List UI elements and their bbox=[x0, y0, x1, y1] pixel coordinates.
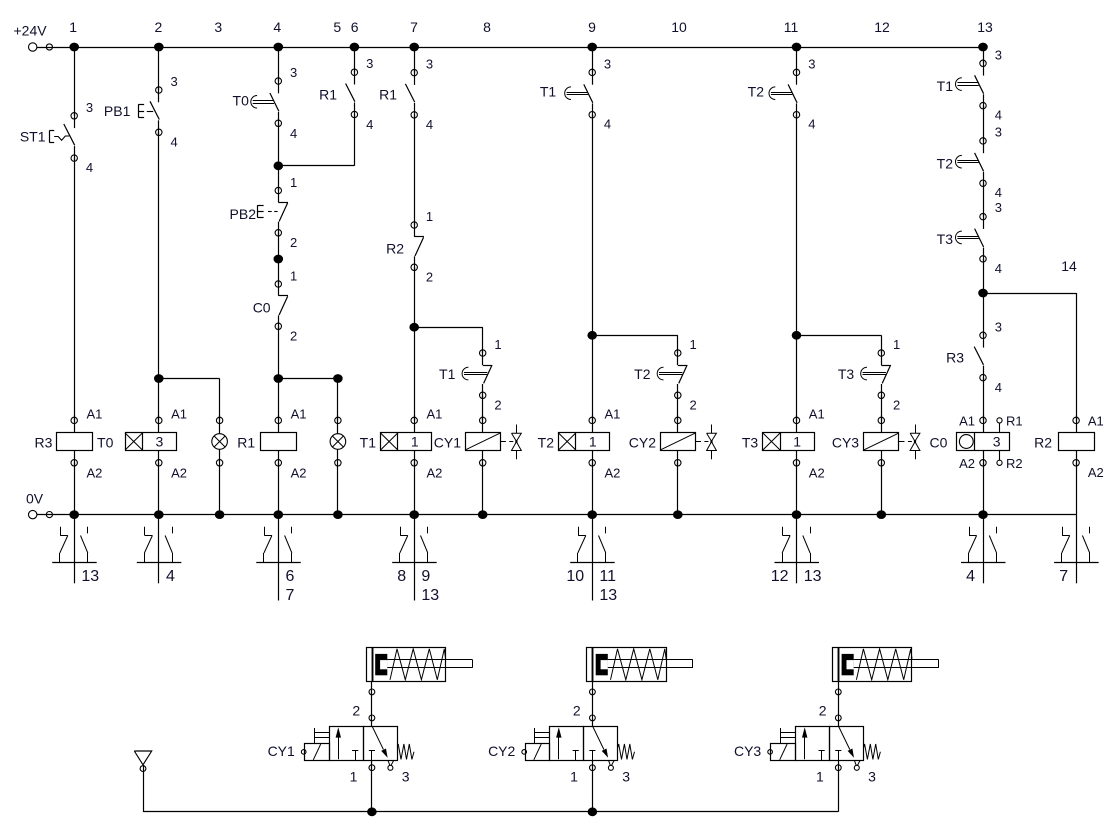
junction top rail rung 13 bbox=[978, 43, 988, 52]
wire PB2 to node bbox=[278, 233, 280, 259]
svg-text:3: 3 bbox=[171, 74, 178, 89]
svg-text:3: 3 bbox=[995, 319, 1002, 334]
coil R1 wires bbox=[278, 415, 280, 433]
svg-text:CY2: CY2 bbox=[629, 435, 656, 451]
wire R2 to node bbox=[414, 267, 416, 327]
junction bottom rail col 12 bbox=[877, 510, 887, 519]
svg-text:3: 3 bbox=[995, 200, 1002, 215]
counter contact C0 NC bbox=[275, 281, 281, 287]
junction top rail rung 2 bbox=[154, 43, 164, 52]
valve CY1 blocked port right bbox=[369, 750, 375, 752]
relay coil R1 bbox=[261, 433, 297, 451]
junction bottom rail col 3 bbox=[215, 510, 225, 519]
svg-text:10: 10 bbox=[566, 568, 584, 585]
svg-text:R2: R2 bbox=[386, 241, 404, 257]
terminal CY3 bbox=[768, 750, 773, 755]
junction manifold CY2 bbox=[588, 807, 598, 816]
svg-text:2: 2 bbox=[690, 397, 697, 412]
valve CY3 exhaust path bbox=[839, 726, 850, 749]
cylinder CY3 rod bbox=[854, 659, 939, 661]
svg-text:8: 8 bbox=[397, 568, 406, 585]
valve CY2 blocked port left bbox=[573, 750, 579, 752]
wire rung6 down bbox=[354, 115, 356, 166]
valve link CY1 bbox=[500, 441, 506, 443]
svg-text:2: 2 bbox=[494, 397, 501, 412]
valve CY3 blocked port right bbox=[835, 750, 841, 752]
port 1 CY3 bbox=[838, 760, 840, 812]
wire T1 to CY1 coil bbox=[482, 395, 484, 420]
coil T2 wires bbox=[592, 415, 594, 433]
cylinder CY1 piston bbox=[375, 654, 387, 675]
timer contact T0 NO delayed bbox=[275, 78, 281, 84]
svg-text:A1: A1 bbox=[291, 406, 307, 421]
svg-text:6: 6 bbox=[286, 568, 295, 585]
svg-text:1: 1 bbox=[290, 269, 297, 284]
valve CY1 exhaust path bbox=[372, 726, 383, 749]
wire rung11 to coil bbox=[796, 335, 798, 420]
svg-text:1: 1 bbox=[793, 434, 801, 450]
cylinder CY1 spring bbox=[390, 649, 446, 680]
wire T3 to CY3 coil bbox=[881, 395, 883, 420]
coil R3 wires bbox=[74, 415, 76, 433]
svg-text:CY1: CY1 bbox=[434, 435, 461, 451]
svg-text:A2: A2 bbox=[291, 465, 307, 480]
port 3 CY1 bbox=[388, 760, 390, 765]
svg-text:13: 13 bbox=[599, 587, 617, 604]
cylinder CY3 body bbox=[833, 648, 912, 682]
coil T0 wires bbox=[158, 415, 160, 433]
svg-text:1: 1 bbox=[893, 337, 900, 352]
valve CY3 body bbox=[796, 727, 830, 761]
cylinder CY2 spring bbox=[611, 649, 667, 680]
pushbutton PB1 NO contact bbox=[156, 87, 162, 93]
svg-text:3: 3 bbox=[995, 47, 1002, 62]
svg-text:3: 3 bbox=[622, 769, 630, 785]
coil CY3 wires bbox=[881, 415, 883, 433]
svg-text:4: 4 bbox=[995, 185, 1002, 200]
svg-text:13: 13 bbox=[81, 568, 99, 585]
timer contact T2 NC delayed bbox=[675, 350, 681, 356]
actuator ST1 bbox=[49, 131, 51, 143]
svg-text:A2: A2 bbox=[959, 456, 975, 471]
svg-text:9: 9 bbox=[421, 568, 430, 585]
svg-text:2: 2 bbox=[155, 19, 163, 35]
relay contact R1 NO rung7 bbox=[411, 69, 417, 75]
svg-text:1: 1 bbox=[589, 434, 597, 450]
svg-text:4: 4 bbox=[366, 117, 373, 132]
junction bottom rail col 10 bbox=[673, 510, 683, 519]
contact cross-ref R1 bbox=[278, 515, 280, 601]
junction rung11 CY3 branch bbox=[792, 331, 802, 340]
relay coil R3 bbox=[57, 433, 93, 451]
junction bottom rail col 13 bbox=[978, 510, 988, 519]
svg-text:14: 14 bbox=[1061, 258, 1077, 274]
lamp H2 wires bbox=[337, 415, 339, 434]
svg-text:7: 7 bbox=[286, 587, 295, 604]
solenoid coil CY2 bbox=[661, 433, 696, 451]
svg-text:A2: A2 bbox=[1088, 465, 1104, 480]
timer contact T1 NC delayed bbox=[480, 350, 486, 356]
wire manifold bbox=[143, 811, 838, 813]
svg-text:1: 1 bbox=[816, 769, 824, 785]
svg-text:T0: T0 bbox=[233, 92, 250, 108]
junction bottom rail col 11 bbox=[792, 510, 802, 519]
wire rung11 mid bbox=[796, 115, 798, 336]
contact cross-ref C0 bbox=[983, 515, 985, 584]
wire rung13 top bbox=[983, 47, 985, 63]
coil C0 wires bbox=[983, 415, 985, 433]
wire branch to lamp V1 bbox=[219, 379, 221, 421]
svg-text:3: 3 bbox=[604, 56, 611, 71]
valve link CY3 bbox=[899, 441, 905, 443]
indicator lamp H1 bbox=[212, 434, 228, 450]
svg-text:R1: R1 bbox=[237, 435, 255, 451]
solenoid pins CY1 bbox=[314, 728, 316, 743]
counter coil C0 preset 3 bbox=[957, 433, 1010, 451]
actuator PB1 bbox=[138, 105, 140, 118]
svg-text:4: 4 bbox=[808, 117, 815, 132]
svg-text:2: 2 bbox=[352, 702, 360, 718]
timer contact T1 NO delayed rung9 bbox=[589, 69, 595, 75]
svg-text:4: 4 bbox=[966, 568, 975, 585]
wire rung6 top bbox=[354, 47, 356, 72]
relay contact R3 NO bbox=[980, 332, 986, 338]
valve CY3 return spring bbox=[864, 744, 881, 759]
svg-text:13: 13 bbox=[804, 568, 822, 585]
solenoid actuator CY3 bbox=[771, 744, 796, 761]
wire rung2 top bbox=[158, 47, 160, 90]
valve CY2 blocked port right bbox=[589, 750, 595, 752]
contact cross-ref T0 bbox=[158, 515, 160, 584]
svg-text:2: 2 bbox=[290, 328, 297, 343]
svg-text:R1: R1 bbox=[379, 87, 397, 103]
terminal CY1 bbox=[301, 750, 306, 755]
junction rung2 lamp branch bbox=[154, 374, 164, 383]
indicator lamp H2 bbox=[330, 434, 346, 450]
0V rail terminal circles bbox=[29, 510, 37, 518]
svg-text:3: 3 bbox=[426, 57, 433, 72]
svg-text:CY3: CY3 bbox=[832, 435, 859, 451]
wire R3 to C0 coil bbox=[983, 378, 985, 421]
cylinder CY2 rod bbox=[608, 659, 693, 661]
svg-text:R2: R2 bbox=[1006, 456, 1023, 471]
svg-text:2: 2 bbox=[426, 269, 433, 284]
wire CY1 branch H bbox=[414, 327, 483, 329]
cylinder CY3 piston bbox=[842, 654, 854, 675]
port 1 CY1 bbox=[371, 760, 373, 812]
wire CY2 branch V bbox=[677, 335, 679, 353]
svg-text:R3: R3 bbox=[34, 435, 52, 451]
valve CY2 flow arrow bbox=[558, 737, 560, 759]
svg-text:1: 1 bbox=[426, 209, 433, 224]
+24V rail terminal circles bbox=[29, 43, 37, 51]
svg-text:12: 12 bbox=[874, 19, 890, 35]
port 1 CY2 bbox=[592, 760, 594, 812]
svg-text:2: 2 bbox=[573, 702, 581, 718]
svg-text:9: 9 bbox=[588, 19, 596, 35]
svg-text:0V: 0V bbox=[26, 491, 44, 507]
svg-text:T2: T2 bbox=[634, 366, 651, 382]
svg-text:A2: A2 bbox=[171, 465, 187, 480]
valve CY2 return spring bbox=[618, 744, 635, 759]
svg-text:12: 12 bbox=[771, 568, 789, 585]
svg-text:A2: A2 bbox=[87, 465, 103, 480]
svg-text:A1: A1 bbox=[809, 406, 825, 421]
svg-text:ST1: ST1 bbox=[20, 129, 46, 145]
coil T3 wires bbox=[796, 415, 798, 433]
svg-text:R2: R2 bbox=[1034, 435, 1052, 451]
junction bottom rail col 4 bbox=[274, 510, 284, 519]
svg-text:3: 3 bbox=[156, 434, 164, 450]
cylinder CY1 rod bbox=[387, 659, 472, 661]
junction top rail rung 1 bbox=[69, 43, 79, 52]
timer contact T3 NC delayed bbox=[878, 350, 884, 356]
svg-text:7: 7 bbox=[1059, 568, 1068, 585]
pin R1 C0 reset bbox=[999, 423, 1001, 433]
svg-text:11: 11 bbox=[599, 568, 616, 585]
junction lamp2 corner bbox=[333, 374, 343, 383]
junction bottom rail col 7 bbox=[409, 510, 419, 519]
svg-text:5: 5 bbox=[333, 19, 341, 35]
svg-text:A2: A2 bbox=[809, 465, 825, 480]
wire rung4 top bbox=[278, 47, 280, 81]
wire CY1 branch V bbox=[482, 327, 484, 353]
wire rung1 mid bbox=[74, 158, 76, 420]
wire rung9 top bbox=[592, 47, 594, 72]
timer coil T0 preset 3 bbox=[126, 433, 177, 451]
svg-text:1: 1 bbox=[69, 19, 77, 35]
wire rung13 node down bbox=[983, 293, 985, 335]
svg-text:3: 3 bbox=[290, 65, 297, 80]
svg-text:1: 1 bbox=[494, 337, 501, 352]
wire rung1 top bbox=[74, 47, 76, 116]
wire CY3 branch V bbox=[881, 335, 883, 353]
switch ST1 detent NO contact bbox=[71, 113, 77, 119]
lamp H2 terminals bbox=[335, 417, 341, 423]
svg-text:A1: A1 bbox=[427, 406, 443, 421]
wire CY3 port2 to cylinder bbox=[838, 681, 840, 726]
compressed air supply bbox=[134, 751, 151, 765]
svg-text:4: 4 bbox=[86, 160, 93, 175]
solenoid pins CY3 bbox=[780, 728, 782, 743]
pushbutton PB2 NC contact bbox=[275, 187, 281, 193]
svg-text:8: 8 bbox=[483, 19, 491, 35]
svg-text:1: 1 bbox=[570, 769, 578, 785]
junction top rail rung 6 bbox=[350, 43, 360, 52]
solenoid actuator CY2 bbox=[526, 744, 550, 761]
svg-text:+24V: +24V bbox=[14, 22, 48, 38]
svg-text:13: 13 bbox=[977, 19, 993, 35]
svg-text:4: 4 bbox=[273, 19, 281, 35]
junction top rail rung 11 bbox=[792, 43, 802, 52]
coil R2 wires bbox=[1076, 415, 1078, 433]
svg-text:1: 1 bbox=[350, 769, 358, 785]
svg-text:13: 13 bbox=[421, 587, 439, 604]
cylinder CY3 spring bbox=[856, 649, 912, 680]
svg-text:4: 4 bbox=[995, 380, 1002, 395]
timer contact T2 NO delayed rung11 bbox=[793, 69, 799, 75]
wire branch to lamp H1 bbox=[159, 378, 220, 380]
svg-text:6: 6 bbox=[351, 19, 359, 35]
cylinder CY2 body bbox=[587, 648, 667, 682]
junction top rail rung 9 bbox=[587, 43, 597, 52]
svg-text:1: 1 bbox=[411, 434, 419, 450]
svg-text:T3: T3 bbox=[838, 366, 855, 382]
wire rung7 top bbox=[414, 47, 416, 73]
valve CY3 blocked port left bbox=[819, 750, 825, 752]
solenoid pins CY2 bbox=[534, 728, 536, 743]
svg-text:T1: T1 bbox=[360, 435, 377, 451]
svg-text:4: 4 bbox=[604, 117, 611, 132]
svg-text:T1: T1 bbox=[937, 78, 954, 94]
contact cross-ref R2 bbox=[1076, 515, 1078, 584]
svg-text:T2: T2 bbox=[937, 155, 954, 171]
wire branch lamp2 V bbox=[337, 379, 339, 421]
svg-text:T1: T1 bbox=[439, 366, 456, 382]
svg-text:R1: R1 bbox=[1006, 414, 1023, 429]
svg-text:R3: R3 bbox=[946, 350, 964, 366]
relay contact R2 NC bbox=[411, 222, 417, 228]
svg-text:7: 7 bbox=[410, 19, 418, 35]
cylinder CY2 piston bbox=[596, 654, 608, 675]
svg-text:A1: A1 bbox=[1088, 414, 1104, 429]
wire rung9 mid bbox=[592, 115, 594, 336]
svg-text:T2: T2 bbox=[538, 435, 555, 451]
wire rung13 T1-T2 bbox=[983, 106, 985, 141]
svg-text:CY3: CY3 bbox=[734, 743, 761, 759]
junction rung4/R1 parallel bbox=[274, 161, 284, 170]
timer contact T1 NO rung13 bbox=[980, 60, 986, 66]
valve CY2 exhaust path bbox=[593, 726, 604, 749]
wire +24V top rail bbox=[37, 47, 983, 49]
junction rung9 CY2 branch bbox=[587, 331, 597, 340]
svg-text:3: 3 bbox=[402, 769, 410, 785]
svg-text:3: 3 bbox=[808, 56, 815, 71]
valve CY1 flow arrow bbox=[338, 737, 340, 759]
valve CY2 body bbox=[550, 727, 584, 761]
wire CY2 branch H bbox=[592, 335, 678, 337]
wire rung11 top bbox=[796, 47, 798, 72]
junction bottom rail col 8 bbox=[478, 510, 488, 519]
svg-text:1: 1 bbox=[290, 175, 297, 190]
svg-text:2: 2 bbox=[893, 397, 900, 412]
svg-text:4: 4 bbox=[171, 134, 178, 149]
port 3 CY2 bbox=[608, 760, 610, 765]
svg-text:T1: T1 bbox=[540, 84, 557, 100]
timer contact T2 NO rung13 bbox=[980, 138, 986, 144]
solenoid actuator CY1 bbox=[305, 744, 330, 761]
svg-text:PB1: PB1 bbox=[104, 103, 131, 119]
lamp H1 wires bbox=[219, 415, 221, 434]
svg-text:3: 3 bbox=[366, 56, 373, 71]
svg-text:10: 10 bbox=[671, 19, 687, 35]
wire CY3 branch H bbox=[797, 335, 882, 337]
svg-text:C0: C0 bbox=[253, 300, 271, 316]
valve CY1 body bbox=[330, 727, 364, 761]
svg-text:4: 4 bbox=[995, 108, 1002, 123]
wire T2 to CY2 coil bbox=[677, 395, 679, 420]
svg-text:2: 2 bbox=[290, 235, 297, 250]
svg-text:A1: A1 bbox=[87, 406, 103, 421]
svg-text:4: 4 bbox=[426, 117, 433, 132]
junction rung7 CY1 branch bbox=[409, 323, 419, 332]
svg-text:A1: A1 bbox=[959, 414, 975, 429]
svg-text:3: 3 bbox=[868, 769, 876, 785]
wire node to C0 bbox=[278, 259, 280, 284]
wire branch rung14 H bbox=[983, 293, 1076, 295]
terminal CY2 bbox=[522, 750, 527, 755]
valve CY1 blocked port left bbox=[352, 750, 358, 752]
valve CY3 flow arrow bbox=[804, 737, 806, 759]
wire rung9 to coil bbox=[592, 335, 594, 420]
wire C0 to lamp branch bbox=[278, 326, 280, 378]
wire parallel R1 branch H bbox=[278, 165, 354, 167]
svg-text:C0: C0 bbox=[929, 435, 947, 451]
wire rung4 to coil bbox=[278, 379, 280, 421]
junction rung13 R2 branch bbox=[978, 289, 988, 298]
wire rung13 T2-T3 bbox=[983, 183, 985, 216]
svg-text:11: 11 bbox=[784, 19, 799, 35]
wire rung4 to node bbox=[278, 123, 280, 166]
relay contact R1 NO rung6 bbox=[351, 69, 357, 75]
svg-text:T3: T3 bbox=[742, 435, 759, 451]
wire branch lamp2 H bbox=[278, 378, 338, 380]
contact cross-ref R3 bbox=[74, 515, 76, 584]
svg-text:4: 4 bbox=[290, 126, 297, 141]
svg-text:3: 3 bbox=[995, 124, 1002, 139]
solenoid coil CY3 bbox=[864, 433, 899, 451]
svg-text:T2: T2 bbox=[748, 84, 765, 100]
timer coil T3 preset 1 bbox=[763, 433, 815, 451]
wire rung4 node to PB2 bbox=[278, 166, 280, 191]
svg-text:A2: A2 bbox=[427, 465, 443, 480]
pin R2 C0 reset bbox=[997, 460, 1002, 465]
wire CY2 port2 to cylinder bbox=[592, 681, 594, 726]
svg-text:R1: R1 bbox=[319, 87, 337, 103]
junction top rail rung 7 bbox=[409, 43, 419, 52]
junction rung4 lamp2 branch bbox=[274, 374, 284, 383]
solenoid coil CY1 bbox=[466, 433, 501, 451]
svg-text:CY1: CY1 bbox=[268, 743, 295, 759]
svg-text:3: 3 bbox=[993, 434, 1001, 450]
valve link CY2 bbox=[696, 441, 702, 443]
wire rung2 mid bbox=[158, 132, 160, 420]
port 3 CY3 bbox=[854, 760, 856, 765]
contact cross-ref T3 bbox=[796, 515, 798, 584]
junction mid rung4 bbox=[274, 255, 284, 264]
svg-text:A2: A2 bbox=[605, 465, 621, 480]
svg-text:2: 2 bbox=[819, 702, 827, 718]
junction bottom rail col 2 bbox=[154, 510, 164, 519]
contact cross-ref T2 bbox=[592, 515, 594, 601]
wire rung7 mid bbox=[414, 115, 416, 225]
wire rung14 V bbox=[1076, 293, 1078, 420]
junction bottom rail col 1 bbox=[69, 510, 79, 519]
svg-text:3: 3 bbox=[214, 19, 222, 35]
svg-text:4: 4 bbox=[995, 261, 1002, 276]
svg-text:1: 1 bbox=[690, 337, 697, 352]
coil CY2 wires bbox=[677, 415, 679, 433]
wire rung13 to node bbox=[983, 259, 985, 293]
svg-text:A1: A1 bbox=[171, 406, 187, 421]
svg-text:4: 4 bbox=[166, 568, 175, 585]
wire rung7 to coil bbox=[414, 327, 416, 420]
wire 0V bottom rail bbox=[37, 514, 1076, 516]
junction bottom rail col 9 bbox=[587, 510, 597, 519]
actuator PB2 bbox=[257, 205, 259, 218]
valve CY1 return spring bbox=[397, 744, 414, 759]
timer coil T2 preset 1 bbox=[559, 433, 610, 451]
